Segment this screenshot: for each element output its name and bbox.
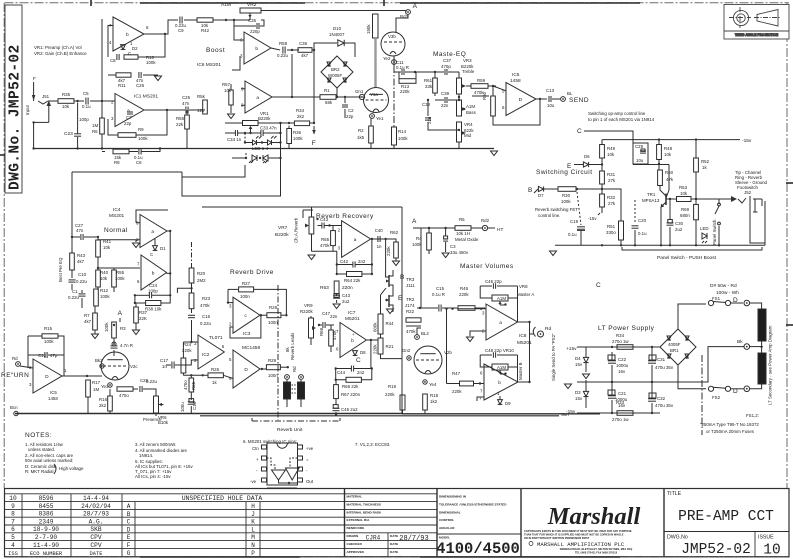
capacitor C5 0.1u xyxy=(85,98,87,105)
svg-text:1M: 1M xyxy=(93,387,99,392)
pad Ben xyxy=(14,411,18,415)
wire IC6 interconnect xyxy=(232,56,240,70)
svg-text:b: b xyxy=(351,338,354,344)
svg-text:4k7: 4k7 xyxy=(77,259,85,264)
svg-text:-15v: -15v xyxy=(566,409,576,415)
svg-text:C24: C24 xyxy=(149,283,158,288)
wire ic8a xyxy=(457,308,486,310)
svg-text:IC3: IC3 xyxy=(243,331,251,337)
resistor R68 470k xyxy=(329,330,334,346)
pad Rd single send xyxy=(518,321,530,323)
svg-text:9: 9 xyxy=(11,503,15,510)
svg-text:10k: 10k xyxy=(607,152,615,157)
svg-text:a: a xyxy=(499,321,502,326)
resistor R5 10k 1H xyxy=(455,226,471,231)
op-amp IC2 xyxy=(198,335,224,369)
op-amp IC8b xyxy=(484,364,518,400)
tube V2c xyxy=(101,352,129,380)
svg-text:C45 2u2: C45 2u2 xyxy=(341,407,358,412)
resistor R2 1k5 xyxy=(369,126,374,143)
resistor R51 330o vertical xyxy=(619,221,624,240)
svg-text:Bcn: Bcn xyxy=(10,405,18,410)
svg-text:C9: C9 xyxy=(178,28,184,33)
capacitor C35 220p xyxy=(233,20,235,26)
resistor R25 + C18 xyxy=(189,378,194,392)
svg-text:C25: C25 xyxy=(182,95,191,100)
wire vertical bus x102 xyxy=(101,19,103,102)
svg-text:4005F: 4005F xyxy=(668,342,681,347)
reverb transformer pads xyxy=(285,375,290,380)
svg-text:R56: R56 xyxy=(176,116,185,121)
svg-text:APPROVED: APPROVED xyxy=(347,550,365,554)
svg-text:-ve: -ve xyxy=(250,479,257,484)
svg-text:BL: BL xyxy=(567,91,573,96)
svg-text:A1M: A1M xyxy=(466,104,475,109)
svg-text:R25: R25 xyxy=(191,381,196,390)
svg-text:100k: 100k xyxy=(293,136,303,141)
svg-text:THIRD ANGLE PROJECTION: THIRD ANGLE PROJECTION xyxy=(735,33,779,37)
svg-text:Ye1: Ye1 xyxy=(376,116,384,121)
ground ic8a xyxy=(470,331,486,336)
svg-text:BR1: BR1 xyxy=(670,348,679,353)
svg-text:47n: 47n xyxy=(76,228,84,233)
svg-text:10k: 10k xyxy=(664,152,672,157)
capacitor C23 100p xyxy=(77,103,79,134)
capacitor C41 2u2 xyxy=(333,295,340,297)
svg-text:R53: R53 xyxy=(679,185,688,190)
svg-text:C: C xyxy=(596,282,601,289)
capacitor C16 0.22u xyxy=(188,314,195,316)
svg-text:R12: R12 xyxy=(100,288,109,293)
tube V3b partial xyxy=(381,32,405,56)
wire return out xyxy=(62,375,102,377)
resistor R21 220k xyxy=(378,338,383,354)
op-amp IC3c xyxy=(233,297,260,333)
svg-text:TR3: TR3 xyxy=(406,277,415,282)
wire IC5 out xyxy=(536,98,547,100)
wire IC3c unity fb xyxy=(230,315,261,338)
svg-text:R44: R44 xyxy=(386,321,395,326)
svg-text:DENBIGH ROAD, BLETCHLEY, MILTO: DENBIGH ROAD, BLETCHLEY, MILTON KEYNES, … xyxy=(560,547,633,551)
svg-text:1458: 1458 xyxy=(48,396,58,401)
capacitor C9 0.22u xyxy=(179,17,181,24)
pad fs1 xyxy=(744,300,750,306)
third angle projection box xyxy=(724,5,789,40)
svg-text:IC8: IC8 xyxy=(519,333,527,339)
svg-text:LT Power Supply: LT Power Supply xyxy=(598,325,655,332)
resistor R22 470k xyxy=(406,318,421,322)
row lines xyxy=(5,501,438,503)
svg-text:MPSA13: MPSA13 xyxy=(642,198,660,203)
svg-text:R21: R21 xyxy=(386,344,395,349)
DWG number side box xyxy=(5,5,24,193)
svg-text:R31: R31 xyxy=(607,172,616,177)
reverb transformer coils xyxy=(284,382,291,399)
svg-text:TR1: TR1 xyxy=(647,192,656,197)
resistor R20 2M2 xyxy=(189,268,194,283)
svg-text:B10k: B10k xyxy=(158,420,169,425)
switch diodes D row142 xyxy=(244,133,246,143)
svg-text:1458: 1458 xyxy=(510,78,521,84)
svg-text:Bk2: Bk2 xyxy=(95,358,103,363)
svg-text:Master Volumes: Master Volumes xyxy=(460,263,514,270)
svg-text:CHECKED: CHECKED xyxy=(347,542,363,546)
svg-text:R34: R34 xyxy=(296,108,305,113)
svg-text:100p: 100p xyxy=(79,117,89,122)
svg-text:220k: 220k xyxy=(452,389,462,394)
svg-text:or T250mA 20mm Fuses: or T250mA 20mm Fuses xyxy=(706,429,755,434)
svg-text:A: A xyxy=(118,310,123,317)
svg-text:C26: C26 xyxy=(136,83,145,88)
wire arrow to jack xyxy=(731,196,737,202)
zener D3 15v xyxy=(583,391,588,396)
ground IC4 xyxy=(133,243,140,248)
svg-text:b: b xyxy=(255,46,258,52)
svg-text:R15: R15 xyxy=(44,326,53,331)
svg-text:10: 10 xyxy=(763,543,780,559)
svg-text:Bk: Bk xyxy=(737,339,743,345)
svg-text:E: E xyxy=(127,534,131,541)
svg-text:C36: C36 xyxy=(299,41,308,46)
svg-text:C30: C30 xyxy=(675,221,684,226)
svg-text:100u: 100u xyxy=(180,402,185,412)
svg-text:R66 22k: R66 22k xyxy=(342,384,359,389)
svg-text:R16: R16 xyxy=(99,397,108,402)
svg-text:470o: 470o xyxy=(183,380,188,390)
svg-text:R38 10k: R38 10k xyxy=(145,307,162,312)
svg-text:1n: 1n xyxy=(377,244,382,249)
svg-text:2-7-90: 2-7-90 xyxy=(35,534,58,541)
svg-text:MODEL: MODEL xyxy=(439,536,450,540)
svg-text:CPV: CPV xyxy=(90,534,101,541)
op-amp IC6a xyxy=(245,81,272,113)
op-amp IC7b xyxy=(340,323,366,358)
svg-text:B: B xyxy=(400,274,405,281)
svg-text:470u 35v: 470u 35v xyxy=(655,403,674,408)
capacitor C8 + resistor R10 100k feedback xyxy=(108,26,113,58)
diode D1 xyxy=(153,246,158,251)
svg-text:1000u: 1000u xyxy=(616,363,629,368)
svg-text:R30: R30 xyxy=(562,193,571,198)
svg-text:2u2: 2u2 xyxy=(342,299,350,304)
svg-text:C16: C16 xyxy=(202,314,211,319)
svg-text:A.G.: A.G. xyxy=(89,518,104,525)
svg-text:C32: C32 xyxy=(657,396,666,401)
svg-text:Mid: Mid xyxy=(464,133,472,138)
svg-text:-15v: -15v xyxy=(742,138,752,144)
svg-text:R60: R60 xyxy=(482,91,487,100)
wire C5 to IC1a xyxy=(90,100,115,102)
svg-text:470u 35v: 470u 35v xyxy=(655,365,674,370)
wire IC1b out xyxy=(144,20,178,34)
svg-text:DWG.No. JMP52-02: DWG.No. JMP52-02 xyxy=(8,44,24,190)
pad Gn2 xyxy=(407,356,411,360)
wire ic8b xyxy=(518,381,530,383)
svg-text:LED 1-4: LED 1-4 xyxy=(252,146,269,151)
svg-text:10k 1H: 10k 1H xyxy=(456,231,470,236)
svg-text:D: D xyxy=(519,97,523,103)
svg-text:Rd: Rd xyxy=(292,366,297,372)
svg-text:C2: C2 xyxy=(348,108,354,113)
resistor R41 10k xyxy=(96,240,101,257)
pad Bk1 grid xyxy=(100,364,104,368)
svg-text:C22: C22 xyxy=(618,357,627,362)
svg-text:MC1458: MC1458 xyxy=(242,345,260,351)
svg-text:HT: HT xyxy=(497,227,503,233)
svg-text:100n: 100n xyxy=(240,294,250,299)
svg-text:0.1u R: 0.1u R xyxy=(396,65,409,70)
pad Ye1 xyxy=(370,114,375,119)
svg-text:SEND: SEND xyxy=(569,97,589,104)
svg-text:C37: C37 xyxy=(443,58,452,63)
reverb unit dashed boundary xyxy=(277,285,279,420)
svg-text:10u: 10u xyxy=(547,103,555,108)
svg-text:M: M xyxy=(251,534,255,541)
svg-text:NOTES:: NOTES: xyxy=(25,432,52,439)
svg-text:5: 5 xyxy=(11,534,15,541)
svg-text:R19: R19 xyxy=(388,384,397,389)
svg-text:R27: R27 xyxy=(242,281,251,286)
resistor R9 100k xyxy=(108,119,118,135)
svg-text:4.7n R: 4.7n R xyxy=(120,343,133,348)
svg-text:unless stated.: unless stated. xyxy=(28,447,55,452)
svg-text:R63: R63 xyxy=(320,285,329,291)
svg-text:Single Send to PA “PS2”: Single Send to PA “PS2” xyxy=(551,333,556,381)
svg-text:Rd2: Rd2 xyxy=(481,218,490,223)
ground after C26 xyxy=(155,76,162,81)
svg-text:C38: C38 xyxy=(422,102,431,107)
svg-text:LT Secondary - see Power Amp D: LT Secondary - see Power Amp Diagram xyxy=(768,325,773,405)
svg-text:270o 1w: 270o 1w xyxy=(612,339,629,344)
op-amp IC5b return xyxy=(33,359,62,393)
svg-text:28/7/93: 28/7/93 xyxy=(83,511,109,518)
svg-text:DIMENSIONING IN: DIMENSIONING IN xyxy=(439,495,467,499)
svg-text:-15v: -15v xyxy=(588,216,597,221)
svg-text:470k: 470k xyxy=(406,329,416,334)
svg-text:1N4007: 1N4007 xyxy=(329,32,345,37)
svg-text:R26: R26 xyxy=(211,367,220,372)
svg-text:C5: C5 xyxy=(83,91,89,96)
svg-text:DATE: DATE xyxy=(90,551,103,557)
resistor R31 27k xyxy=(600,171,605,184)
svg-text:R32: R32 xyxy=(607,195,616,200)
bridge BR2 W005F xyxy=(321,56,353,88)
pad Gn1 xyxy=(359,94,364,99)
svg-text:INTERNAL BEND RADII: INTERNAL BEND RADII xyxy=(347,510,382,514)
wire boost elbow xyxy=(71,172,73,237)
svg-text:R59: R59 xyxy=(477,78,486,83)
svg-text:Maste-EQ: Maste-EQ xyxy=(433,51,466,58)
pot VR5 A1M Bass xyxy=(457,100,462,116)
svg-text:R1: R1 xyxy=(324,88,330,93)
ground ic8b in xyxy=(477,397,484,401)
svg-text:C21: C21 xyxy=(618,391,627,396)
tube V2b xyxy=(414,346,442,374)
resistor R23 470k xyxy=(189,293,194,309)
svg-text:R5k: R5k xyxy=(197,94,206,99)
svg-text:A: A xyxy=(127,503,131,510)
svg-text:D8: D8 xyxy=(360,350,366,355)
svg-text:11-4-90: 11-4-90 xyxy=(33,542,59,549)
resistor R52 1k vertical xyxy=(694,158,699,172)
svg-text:220k: 220k xyxy=(373,344,378,354)
resistor R40 10k xyxy=(96,270,101,287)
svg-text:F: F xyxy=(127,542,131,549)
wire top bus to A xyxy=(261,11,406,13)
wire bus join xyxy=(33,122,35,148)
resistor R69 680n vertical xyxy=(694,204,699,219)
svg-text:R47: R47 xyxy=(452,371,461,376)
wire mid bus y149 xyxy=(33,148,494,150)
svg-text:C13: C13 xyxy=(546,88,555,93)
pot VR4 822k Mid xyxy=(457,122,462,142)
svg-text:C18: C18 xyxy=(192,401,197,410)
pad BL2 xyxy=(415,335,420,340)
resistor R43 4k7 xyxy=(70,253,75,270)
svg-text:B220k: B220k xyxy=(258,116,271,121)
svg-text:=: = xyxy=(306,457,309,462)
svg-text:M5201: M5201 xyxy=(345,316,360,322)
svg-text:Bost Pre EQ: Bost Pre EQ xyxy=(58,257,63,282)
svg-text:R4: R4 xyxy=(416,236,422,241)
ground VR7 xyxy=(312,250,338,252)
svg-text:7. V1,2,3: ECC83.: 7. V1,2,3: ECC83. xyxy=(355,442,390,447)
svg-text:R6: R6 xyxy=(92,129,98,134)
svg-text:+: + xyxy=(256,457,259,462)
svg-text:R11: R11 xyxy=(118,83,126,88)
svg-text:V3b: V3b xyxy=(388,34,396,39)
svg-text:R17: R17 xyxy=(92,380,101,385)
svg-text:R: MKT Radial: R: MKT Radial xyxy=(25,469,53,474)
svg-text:0.22u: 0.22u xyxy=(200,321,212,326)
capacitor C25 47n xyxy=(185,107,187,114)
svg-text:2n2: 2n2 xyxy=(357,370,365,375)
svg-text:VR1: Preamp (Ch.A) Vol: VR1: Preamp (Ch.A) Vol xyxy=(34,45,82,50)
svg-text:100n: 100n xyxy=(268,320,278,325)
wire bridge to fuses xyxy=(678,304,706,329)
svg-text:C35: C35 xyxy=(248,18,257,23)
ground R37 xyxy=(133,330,140,335)
capacitor C31 470u 35v xyxy=(649,355,656,360)
svg-text:ECO NUMBER: ECO NUMBER xyxy=(30,551,63,557)
svg-text:D9: D9 xyxy=(505,401,511,406)
svg-text:47n: 47n xyxy=(182,101,190,106)
op-amp IC1a xyxy=(115,94,144,127)
svg-text:W005F: W005F xyxy=(328,73,342,78)
svg-text:A1M: A1M xyxy=(221,2,231,8)
svg-text:D2: D2 xyxy=(132,46,138,51)
svg-text:P: P xyxy=(251,550,255,557)
svg-text:R9: R9 xyxy=(138,127,144,132)
resistor R35 10k xyxy=(58,99,74,104)
svg-text:68k: 68k xyxy=(325,100,333,105)
svg-text:VR3: VR3 xyxy=(463,58,472,63)
svg-text:22k: 22k xyxy=(176,122,184,127)
svg-text:R49: R49 xyxy=(607,146,616,151)
svg-text:A1M: A1M xyxy=(497,365,506,370)
svg-text:R40: R40 xyxy=(100,270,109,275)
svg-text:CPV: CPV xyxy=(90,542,101,549)
svg-text:ISSUE: ISSUE xyxy=(758,535,774,541)
capacitor C11 0.1u xyxy=(401,69,403,75)
capacitor C21 1000u 16v xyxy=(608,390,615,395)
svg-text:Reverb switching FET: Reverb switching FET xyxy=(535,207,578,212)
bracket panel switch xyxy=(622,247,762,250)
capacitor C29 10u xyxy=(633,143,648,164)
svg-text:B: B xyxy=(528,187,533,194)
svg-text:DWG.No: DWG.No xyxy=(667,535,688,541)
svg-text:27k: 27k xyxy=(608,178,616,183)
resistor R44 600k xyxy=(378,314,383,334)
svg-text:R43: R43 xyxy=(77,253,86,258)
svg-text:Reverb Drive: Reverb Drive xyxy=(230,269,274,276)
resistor R18 1k2 xyxy=(423,394,428,410)
svg-text:N: N xyxy=(251,542,255,549)
svg-text:8455: 8455 xyxy=(39,503,54,510)
svg-text:R2: R2 xyxy=(358,128,364,133)
resistor R36 100k xyxy=(287,129,292,144)
svg-text:2k2: 2k2 xyxy=(297,114,305,119)
svg-text:SKB: SKB xyxy=(90,526,101,533)
svg-text:IC1 MS201: IC1 MS201 xyxy=(134,94,158,100)
svg-text:600k: 600k xyxy=(373,322,378,332)
svg-text:+: + xyxy=(479,396,482,401)
svg-text:Bass: Bass xyxy=(466,110,477,115)
op-amp IC4b xyxy=(141,255,167,290)
transformer winding top xyxy=(758,309,766,341)
svg-text:a: a xyxy=(256,96,259,101)
svg-text:C3: C3 xyxy=(450,244,456,249)
wire R27 fb xyxy=(228,288,239,290)
svg-text:EXTERNAL B/A: EXTERNAL B/A xyxy=(347,518,371,522)
ground zener xyxy=(583,374,590,379)
svg-text:J111: J111 xyxy=(406,283,415,288)
svg-text:J51: J51 xyxy=(42,94,50,99)
svg-text:C1: C1 xyxy=(72,289,78,294)
svg-text:Master A: Master A xyxy=(517,292,534,297)
wire 1458 out xyxy=(260,368,266,370)
resistor R27 100n xyxy=(239,287,254,292)
svg-text:C15: C15 xyxy=(436,286,445,291)
svg-text:C: C xyxy=(150,252,153,257)
resistor R60 xyxy=(491,96,496,116)
svg-text:10k: 10k xyxy=(100,276,108,281)
bridge BR1 4005F xyxy=(660,329,696,365)
svg-text:Ye3: Ye3 xyxy=(101,384,109,389)
svg-text:C40: C40 xyxy=(375,228,384,233)
resistor R11 4k7 + capacitor C26 47n xyxy=(108,74,116,76)
svg-text:A1M: A1M xyxy=(497,296,506,301)
svg-text:4k7: 4k7 xyxy=(301,53,309,58)
svg-text:All ICs, pin 4: -15v: All ICs, pin 4: -15v xyxy=(135,474,171,479)
capacitor C12 47p xyxy=(44,352,46,358)
svg-text:22p: 22p xyxy=(124,121,132,126)
svg-text:VR8: VR8 xyxy=(519,284,528,289)
svg-text:330o: 330o xyxy=(606,230,616,235)
svg-text:0.1u: 0.1u xyxy=(568,232,577,237)
svg-text:JMP52-02: JMP52-02 xyxy=(681,542,751,558)
svg-text:b: b xyxy=(126,32,129,38)
wire R35 to C5 xyxy=(74,100,84,102)
diode D9 xyxy=(498,400,503,405)
svg-text:2349: 2349 xyxy=(39,518,54,525)
svg-text:0.22u: 0.22u xyxy=(68,295,80,300)
svg-text:C44: C44 xyxy=(337,370,346,375)
ground R7 xyxy=(92,334,99,339)
svg-text:4: 4 xyxy=(11,542,15,549)
svg-text:IC4: IC4 xyxy=(113,207,121,213)
svg-text:Rd: Rd xyxy=(545,326,551,332)
